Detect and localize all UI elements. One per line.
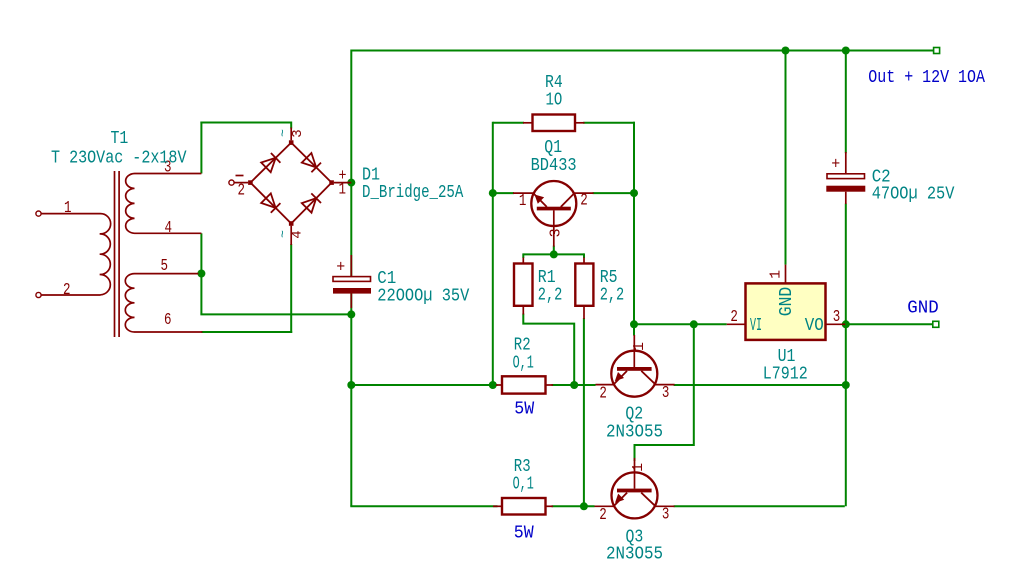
junction at 351.3,385 bbox=[347, 381, 355, 389]
wire R3 right to Q3 pin2 bbox=[552, 505, 595, 507]
svg-text:T1: T1 bbox=[111, 129, 129, 149]
wire transformer pin3 up bbox=[200, 122, 202, 174]
wire R2 left rail bbox=[351, 384, 497, 386]
junction at 492.8,193.1 bbox=[489, 189, 497, 197]
svg-text:2: 2 bbox=[599, 385, 607, 404]
svg-text:22OOOµ 35V: 22OOOµ 35V bbox=[377, 286, 469, 306]
wire pin3 to bridge top bbox=[200, 122, 291, 124]
junction at 574.2,385 bbox=[570, 381, 578, 389]
regulator U1 L7912 body bbox=[727, 265, 846, 340]
svg-text:+: + bbox=[336, 259, 345, 278]
svg-text:2: 2 bbox=[238, 182, 246, 201]
wire pin4 down to center-tap junction bbox=[200, 233, 202, 273]
unconnected end square GND bbox=[933, 321, 939, 327]
wire center-tap to C1 bottom bbox=[200, 313, 351, 315]
junction at 351.3,314.4 bbox=[347, 310, 355, 318]
svg-text:1: 1 bbox=[768, 270, 785, 279]
wire R1 top stub bbox=[522, 253, 524, 258]
svg-text:3: 3 bbox=[290, 129, 306, 137]
svg-text:O,1: O,1 bbox=[513, 475, 534, 495]
svg-text:GND: GND bbox=[777, 287, 797, 317]
svg-text:2: 2 bbox=[63, 281, 71, 300]
wire VO to GND label bbox=[846, 323, 933, 325]
transformer T1 bbox=[36, 159, 203, 338]
capacitor C2 bbox=[826, 152, 865, 204]
junction at 785.5,50.5 bbox=[782, 47, 790, 55]
wire R2 right to Q2 pin2 bbox=[552, 384, 596, 386]
svg-text:3: 3 bbox=[548, 228, 565, 237]
junction at 553.8,254.4 bbox=[550, 250, 558, 258]
svg-text:3: 3 bbox=[662, 506, 670, 525]
wire Q1 base stub bbox=[493, 192, 514, 194]
svg-text:3: 3 bbox=[833, 308, 841, 327]
wire R5 bottom down to R3 junction bbox=[583, 318, 585, 506]
svg-text:Out + 12V 1OA: Out + 12V 1OA bbox=[868, 68, 985, 88]
wire R4 left vertical down to Q1 base and R2 bbox=[492, 122, 494, 385]
junction at 693.8,324.3 bbox=[690, 320, 698, 328]
svg-text:6: 6 bbox=[164, 311, 172, 330]
resistor R4 bbox=[523, 115, 585, 132]
wire R3 left from rail corner bbox=[350, 505, 497, 507]
wire C2 top from rail bbox=[845, 50, 847, 154]
junction at 845.8,50.5 bbox=[842, 47, 850, 55]
svg-text:2N3O55: 2N3O55 bbox=[606, 544, 663, 564]
unconnected end square Out bbox=[934, 48, 940, 54]
svg-text:2: 2 bbox=[599, 506, 607, 525]
wire R5 top stub bbox=[583, 253, 585, 258]
wire C2 bottom to VO node bbox=[845, 204, 847, 325]
wire R4 right bbox=[583, 122, 635, 124]
svg-text:4: 4 bbox=[290, 230, 306, 238]
junction at 634,193.1 bbox=[630, 189, 638, 197]
capacitor C1 bbox=[333, 255, 371, 308]
svg-text:1: 1 bbox=[339, 180, 347, 199]
wire U1 VI to rail bbox=[634, 323, 727, 325]
junction at 201.4,273.5 bbox=[197, 270, 205, 278]
svg-text:1: 1 bbox=[519, 192, 527, 211]
svg-text:L7912: L7912 bbox=[763, 365, 808, 385]
svg-text:1: 1 bbox=[64, 199, 72, 218]
wire R1 bottom jog bbox=[523, 314, 574, 386]
wire R4 left bbox=[493, 122, 524, 124]
svg-text:47OOµ 25V: 47OOµ 25V bbox=[872, 185, 955, 205]
wire top +12V output rail bbox=[351, 50, 934, 52]
junction at 634,324.3 bbox=[630, 320, 638, 328]
wire VO junction down to emitter rail bbox=[845, 324, 847, 385]
svg-text:T 23OVac -2x18V: T 23OVac -2x18V bbox=[51, 148, 187, 168]
wire C1 bottom to 0V node bbox=[350, 294, 352, 507]
svg-text:4: 4 bbox=[165, 219, 173, 238]
wire Q1 collector rail down to U1 VI and Q2 base bbox=[633, 122, 635, 336]
svg-text:+: + bbox=[831, 156, 840, 175]
wire center-tap down from junction bbox=[200, 274, 202, 315]
svg-text:2,2: 2,2 bbox=[600, 286, 625, 306]
svg-text:BD433: BD433 bbox=[531, 156, 577, 176]
svg-text:D_Bridge_25A: D_Bridge_25A bbox=[362, 183, 463, 203]
svg-text:2N3O55: 2N3O55 bbox=[606, 422, 663, 442]
svg-text:VO: VO bbox=[805, 316, 824, 336]
junction at 351.3,182.6 bbox=[347, 179, 355, 187]
wire U1 GND pin to top rail bbox=[785, 51, 787, 265]
resistor R5 bbox=[575, 264, 593, 320]
transistor Q1 bbox=[513, 181, 594, 247]
junction at 845.8,324.3 bbox=[842, 320, 850, 328]
svg-text:2: 2 bbox=[730, 308, 738, 327]
wire Q3 base from U1 VI node bbox=[635, 324, 694, 461]
wire R1/R5 top rail bbox=[523, 253, 584, 255]
junction at 492.8,385 bbox=[489, 381, 497, 389]
transistor Q2 bbox=[596, 335, 675, 404]
resistor R1 bbox=[514, 264, 533, 315]
svg-text:GND: GND bbox=[907, 299, 938, 319]
svg-text:2,2: 2,2 bbox=[538, 286, 563, 306]
svg-text:O,1: O,1 bbox=[513, 353, 534, 373]
wire Q3 pin3 bbox=[674, 505, 845, 507]
wire Q1 pin2 to rail bbox=[593, 192, 634, 194]
wire Q1 emitter to R1/R5 top bbox=[553, 246, 555, 255]
svg-text:1: 1 bbox=[631, 342, 648, 351]
resistor R3 bbox=[493, 498, 553, 515]
wire left rail vertical (bridge + to C1) bbox=[350, 50, 352, 278]
svg-text:1: 1 bbox=[630, 463, 647, 472]
svg-text:5W: 5W bbox=[514, 400, 534, 420]
wire bridge bottom vertical bbox=[290, 244, 292, 333]
svg-text:5W: 5W bbox=[514, 524, 534, 544]
svg-text:1O: 1O bbox=[546, 90, 563, 110]
junction at 583.9,506.3 bbox=[580, 502, 588, 510]
resistor R2 bbox=[496, 376, 553, 393]
wire pin6 to bridge bottom bbox=[201, 331, 292, 333]
svg-text:2: 2 bbox=[580, 191, 588, 210]
wire right rail Q2/Q3 emitters bbox=[845, 384, 847, 506]
wire Q2 pin3 to right rail bbox=[674, 384, 846, 386]
transistor Q3 bbox=[595, 458, 675, 525]
junction at 845.8,385 bbox=[842, 381, 850, 389]
bridge rectifier D1 bbox=[229, 122, 351, 246]
svg-text:5: 5 bbox=[161, 257, 169, 276]
svg-text:3: 3 bbox=[662, 384, 670, 403]
svg-text:VI: VI bbox=[750, 316, 762, 336]
